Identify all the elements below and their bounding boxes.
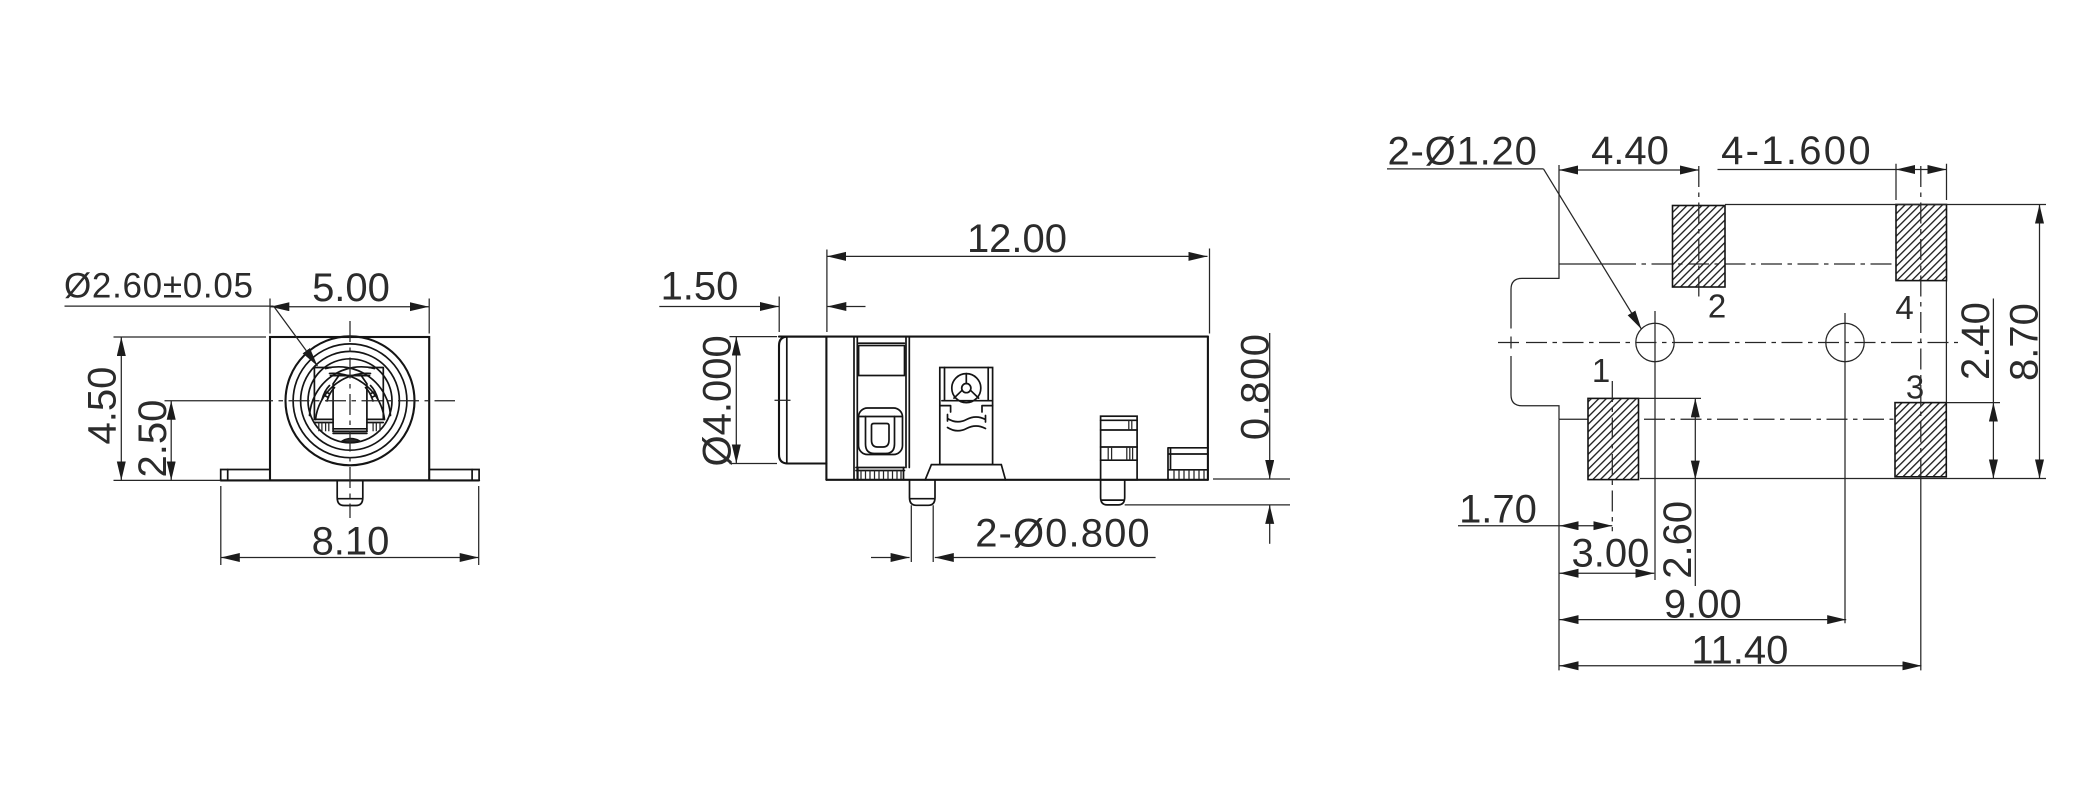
collar right double edge — [854, 337, 857, 480]
pad 1 vertical centerline — [1611, 381, 1613, 531]
dim 11.40 line — [1560, 665, 1922, 667]
dim 2.40 line — [1992, 299, 1994, 403]
svg-text:1: 1 — [1592, 352, 1610, 389]
bottom band — [333, 429, 367, 434]
tip contact arch right arm — [326, 367, 391, 416]
svg-text:8.10: 8.10 — [312, 520, 390, 564]
dim 2.50 extension line — [165, 400, 253, 402]
body top edge — [779, 336, 1208, 338]
hole 2 vertical centerline — [1844, 313, 1846, 623]
svg-text:12.00: 12.00 — [967, 217, 1067, 261]
svg-text:3: 3 — [1906, 368, 1924, 405]
svg-text:4: 4 — [1895, 289, 1913, 326]
svg-text:2.40: 2.40 — [1954, 302, 1998, 380]
pedestal — [925, 465, 1005, 480]
right serrated block — [1168, 448, 1208, 480]
dim 1.50 right part — [827, 306, 865, 308]
dim 4.50 extension lines — [114, 337, 267, 480]
dim 1.50 extension line — [778, 297, 780, 333]
svg-text:2-Ø0.800: 2-Ø0.800 — [975, 512, 1151, 556]
dim 9.00 line — [1560, 619, 1847, 621]
jack body front face — [270, 337, 429, 480]
pads top reference line — [1725, 204, 2046, 206]
switch window — [859, 346, 905, 376]
svg-text:0.800: 0.800 — [1234, 332, 1278, 440]
pads 3/4 vertical centerline — [1920, 166, 1922, 477]
dim 4-1.600 line — [1718, 169, 1897, 171]
barrel circle 2 — [293, 344, 407, 458]
dim 1.70 arrows — [1560, 525, 1613, 527]
outline top edge (solid then dash-dot) — [1559, 263, 1615, 265]
svg-text:Ø2.60±0.05: Ø2.60±0.05 — [64, 267, 254, 306]
tip contact arch left arm — [310, 367, 375, 416]
dim 1.70 underline — [1458, 525, 1560, 527]
svg-text:2-Ø1.20: 2-Ø1.20 — [1388, 130, 1538, 174]
pad 2 (hatched) — [1673, 206, 1726, 288]
dim Ø4.000 extension lines — [730, 337, 778, 464]
main horizontal centerline — [1498, 342, 1519, 344]
right mounting flange — [429, 470, 479, 481]
outline right edge between pads — [1945, 281, 1947, 403]
dim 2.40 extension line — [1946, 402, 2000, 404]
dim 2.50 line — [170, 401, 172, 481]
barrel axis tick — [775, 399, 791, 401]
hole 1 vertical centerline — [1654, 311, 1656, 580]
pad 3 (hatched) — [1895, 403, 1946, 477]
screw-head circle — [952, 374, 981, 403]
pin 2 terminal stack — [1101, 416, 1138, 480]
inner partition double line — [906, 337, 909, 468]
svg-text:2.50: 2.50 — [131, 400, 175, 478]
dim 2.60 extension line — [1638, 397, 1701, 399]
svg-text:3.00: 3.00 — [1571, 531, 1649, 575]
dim 8.70 line — [2039, 205, 2041, 479]
svg-text:11.40: 11.40 — [1691, 629, 1788, 673]
pin 1 (long solder pin) — [910, 480, 936, 506]
vertical centerline — [349, 321, 351, 518]
outline left extension down — [1558, 419, 1560, 670]
ledge serrations right — [373, 423, 380, 432]
clip contact outer — [859, 408, 903, 455]
collar left edge — [825, 337, 827, 480]
bottom contact dimple — [343, 438, 360, 442]
leader arrow to hole — [274, 306, 318, 366]
barrel (phone jack sleeve) — [779, 337, 826, 464]
lower ledges — [314, 419, 383, 422]
center tip contact (trapezoid) — [333, 376, 367, 432]
jack hole circle (Ø2.60) — [308, 359, 392, 443]
svg-text:Ø4.000: Ø4.000 — [696, 335, 740, 466]
dim 4-1.600 extension lines — [1896, 164, 1947, 200]
pad 1 (hatched) — [1588, 398, 1639, 479]
dim 12.00 extension lines — [827, 249, 1210, 334]
svg-text:4-1.600: 4-1.600 — [1721, 129, 1873, 173]
hole 2 (Ø1.20) — [1826, 323, 1864, 361]
svg-text:2.60: 2.60 — [1656, 501, 1700, 579]
leader underline 2-Ø1.20 — [1387, 168, 1544, 170]
ledge serrations left — [319, 423, 329, 432]
svg-text:1.50: 1.50 — [661, 265, 739, 309]
hole 1 (Ø1.20) — [1636, 323, 1674, 361]
pad 2 vertical centerline — [1698, 166, 1700, 301]
pin 2 — [1101, 480, 1125, 505]
spring wavy band — [948, 415, 986, 431]
clip contact inner — [872, 424, 890, 448]
dim 0.800 upper line — [1269, 333, 1271, 479]
contact finger right — [366, 386, 379, 402]
dim 4.50 line — [120, 337, 122, 480]
center solder pin below body — [337, 480, 363, 505]
leader arrow to hole 1 — [1544, 169, 1642, 329]
dim Ø4.000 line — [735, 337, 737, 464]
barrel lip line — [786, 337, 788, 464]
svg-text:8.70: 8.70 — [2003, 303, 2047, 381]
svg-text:4.40: 4.40 — [1591, 129, 1669, 173]
dim 8.10 extension lines — [221, 486, 479, 565]
left serrated block — [856, 468, 905, 471]
dim 3.00 line — [1560, 572, 1655, 574]
horizontal centerline — [252, 400, 455, 402]
dim 2-Ø0.800 line — [871, 557, 910, 559]
bottom edge line across flanges — [221, 479, 479, 481]
dim 12.00 line — [827, 255, 1208, 257]
center contact tower — [940, 368, 993, 465]
svg-text:2: 2 — [1708, 288, 1726, 325]
dim 0.800 lower line — [1269, 505, 1271, 544]
pads bottom reference line — [1640, 478, 2046, 480]
svg-text:4.50: 4.50 — [81, 367, 125, 445]
dim 1.50 left part with underline — [659, 306, 779, 308]
dim 4.40 line — [1559, 169, 1699, 171]
dim 5.00 line — [270, 306, 429, 308]
component outline top-left corner edge — [1558, 165, 1560, 264]
body bottom edge — [826, 479, 1208, 481]
outline bottom edge (solid then dash-dot) — [1559, 418, 1588, 420]
svg-text:5.00: 5.00 — [312, 266, 390, 310]
dim 5.00 extension lines — [270, 299, 429, 334]
pad 4 (hatched) — [1896, 205, 1947, 281]
inner cavity square sides — [314, 368, 383, 420]
contact finger left — [322, 386, 335, 402]
clip contact middle — [866, 417, 895, 454]
dim 2.60 line — [1694, 398, 1696, 479]
tower shoulder — [940, 406, 993, 412]
left mounting flange — [221, 470, 270, 481]
svg-text:1.70: 1.70 — [1459, 488, 1537, 532]
dim 0.800 extension lines — [1125, 479, 1290, 505]
leader underline — [65, 305, 274, 307]
barrel circle 3 — [301, 351, 400, 450]
svg-text:9.00: 9.00 — [1664, 582, 1742, 626]
body right edge — [1207, 337, 1209, 480]
dim 8.10 line — [221, 557, 479, 559]
outline left edge with barrel protrusion — [1511, 264, 1559, 419]
barrel circle (outer) — [286, 336, 415, 465]
